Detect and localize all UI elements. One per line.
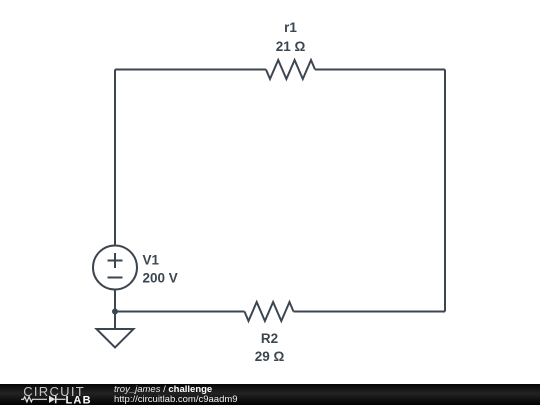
- svg-text:V1: V1: [143, 253, 160, 268]
- wire V1 bottom to ground: [114, 290, 116, 330]
- svg-text:R2: R2: [261, 331, 278, 346]
- svg-text:29 Ω: 29 Ω: [255, 349, 285, 364]
- footer bar: [0, 384, 540, 405]
- credit text: [114, 384, 238, 405]
- svg-text:200 V: 200 V: [143, 271, 178, 286]
- svg-text:LAB: LAB: [66, 395, 92, 405]
- logo diode: [49, 396, 55, 403]
- wire bottom-right to resistor R2: [294, 311, 446, 313]
- CircuitLab logo: [0, 384, 110, 405]
- svg-text:r1: r1: [284, 20, 297, 35]
- resistor r1: [266, 60, 315, 79]
- svg-text:21 Ω: 21 Ω: [276, 39, 306, 54]
- wire resistor R2 to node A: [115, 311, 245, 313]
- wire resistor r1 to top-right corner: [315, 69, 445, 71]
- wire top-left to resistor r1: [115, 69, 266, 71]
- V1 plus sign: [108, 253, 123, 268]
- ground: [97, 329, 134, 348]
- node A junction dot: [112, 309, 118, 315]
- logo resistor squiggle: [21, 397, 47, 402]
- resistor R2: [245, 302, 294, 321]
- V1 minus sign: [108, 277, 123, 279]
- voltage source V1 circle: [93, 246, 137, 290]
- wire right side: [444, 70, 446, 312]
- wire top-left down to V1: [114, 70, 116, 246]
